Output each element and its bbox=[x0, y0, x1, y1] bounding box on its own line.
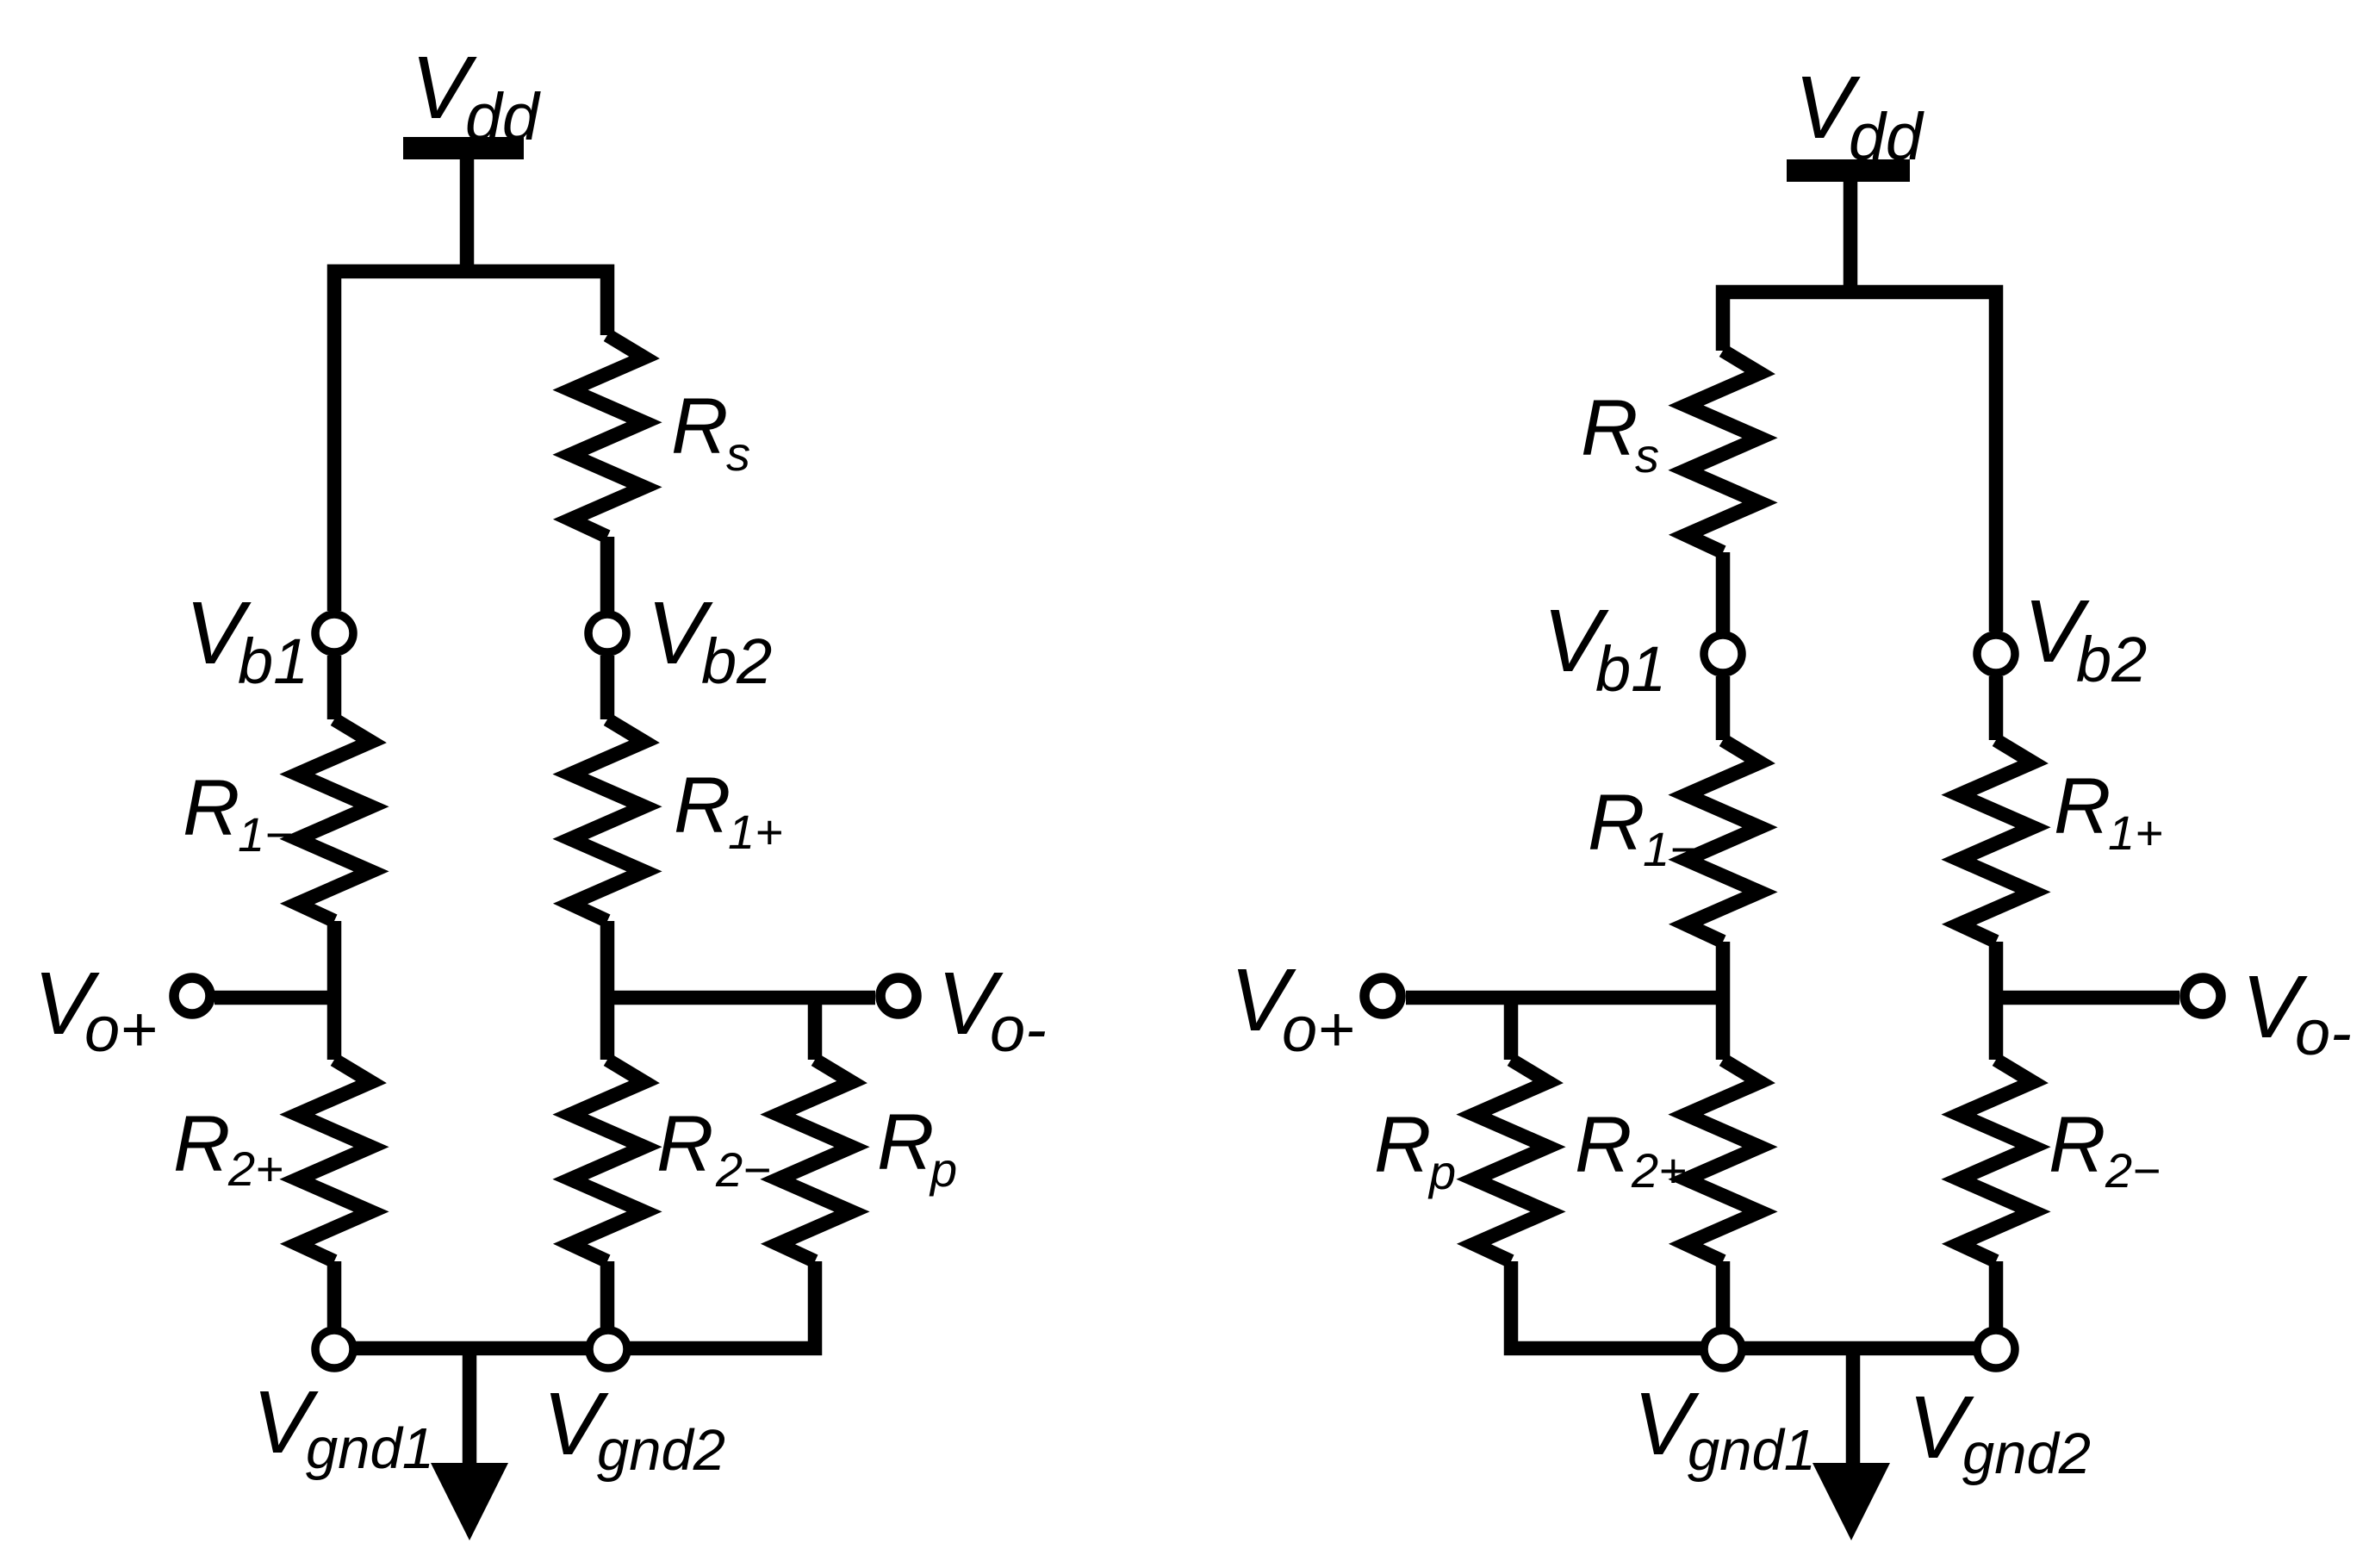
svg-text:R: R bbox=[674, 762, 731, 849]
wire top rail right circuit bbox=[1723, 292, 1996, 632]
svg-text:gnd2: gnd2 bbox=[597, 1418, 725, 1483]
wire Vo- left circuit bbox=[607, 991, 875, 1005]
svg-text:s: s bbox=[726, 426, 750, 481]
wire Rp to bottom rail right circuit bbox=[1511, 1261, 1996, 1348]
wire mid rail R2- to Vgnd2 bbox=[600, 1261, 615, 1348]
wire Vo- right circuit bbox=[1996, 991, 2179, 1005]
node Vb1 left bbox=[315, 614, 353, 652]
node Vgnd1 left bbox=[315, 1330, 353, 1368]
svg-text:o+: o+ bbox=[1282, 993, 1354, 1065]
svg-text:R: R bbox=[2049, 1101, 2105, 1189]
node Vgnd2 left bbox=[589, 1330, 627, 1368]
power symbol Vdd left bbox=[403, 137, 524, 159]
svg-text:1−: 1− bbox=[238, 807, 293, 862]
wire left rail R1- to R2+ bbox=[327, 921, 342, 1060]
resistor R1+ right circuit bbox=[1959, 740, 2033, 942]
node Vb2 right bbox=[1977, 635, 2015, 673]
terminal Vo+ left bbox=[174, 978, 210, 1014]
wire left rail Vb1 to R1- right circuit bbox=[1716, 676, 1731, 740]
wire Rp to bottom rail left circuit bbox=[334, 1261, 815, 1348]
resistor R1- left circuit bbox=[297, 719, 371, 921]
wire left rail R1- to R2+ right circuit bbox=[1716, 942, 1731, 1060]
svg-text:b1: b1 bbox=[1595, 633, 1666, 705]
svg-text:R: R bbox=[656, 1100, 713, 1188]
svg-text:dd: dd bbox=[1849, 100, 1924, 174]
wire left rail R2+ to Vgnd1 right circuit bbox=[1716, 1261, 1731, 1348]
svg-text:o+: o+ bbox=[84, 993, 157, 1065]
wire right rail Vb2 to R1+ right circuit bbox=[1989, 676, 2004, 740]
resistor R1+ left circuit bbox=[570, 719, 644, 921]
svg-text:2+: 2+ bbox=[1631, 1143, 1687, 1198]
svg-text:2+: 2+ bbox=[227, 1142, 283, 1196]
wire right rail R1+ to R2- right circuit bbox=[1989, 942, 2004, 1060]
svg-text:R: R bbox=[1588, 779, 1645, 867]
svg-text:b2: b2 bbox=[2076, 624, 2147, 695]
wire mid rail R1+ to R2- bbox=[600, 921, 615, 1060]
resistor R2- left circuit bbox=[570, 1060, 644, 1261]
wire left rail R2+ to Vgnd1 bbox=[327, 1261, 342, 1348]
svg-text:gnd1: gnd1 bbox=[306, 1416, 434, 1481]
resistor Rp left circuit bbox=[778, 1060, 852, 1261]
wire Vo+ right circuit bbox=[1406, 991, 1723, 1005]
svg-text:p: p bbox=[1427, 1145, 1456, 1199]
resistor R2+ right circuit bbox=[1686, 1060, 1760, 1261]
node Vgnd2 right bbox=[1977, 1330, 2015, 1368]
resistor Rs right circuit bbox=[1686, 351, 1760, 552]
svg-text:R: R bbox=[2054, 762, 2111, 850]
wire mid rail Vb2 to R1+ bbox=[600, 537, 615, 719]
svg-text:R: R bbox=[183, 764, 239, 852]
svg-text:gnd1: gnd1 bbox=[1688, 1418, 1816, 1483]
svg-text:R: R bbox=[671, 383, 728, 470]
wire Vo+ left circuit bbox=[215, 991, 334, 1005]
terminal Vo- right bbox=[2185, 978, 2221, 1014]
svg-text:s: s bbox=[1635, 428, 1659, 482]
svg-text:R: R bbox=[877, 1098, 934, 1186]
wire left rail Rs to Vb1 right circuit bbox=[1716, 552, 1731, 632]
resistor R1- right circuit bbox=[1686, 740, 1760, 942]
ground symbol left circuit bbox=[463, 1348, 477, 1466]
svg-text:o-: o- bbox=[990, 993, 1047, 1065]
svg-text:p: p bbox=[929, 1142, 957, 1197]
resistor R2- right circuit bbox=[1959, 1060, 2033, 1261]
wire right rail R2- to Vgnd2 right circuit bbox=[1989, 1261, 2004, 1348]
wire top rail left circuit bbox=[334, 271, 607, 611]
terminal Vo- left bbox=[880, 978, 917, 1014]
svg-text:1+: 1+ bbox=[728, 805, 783, 859]
svg-text:1−: 1− bbox=[1643, 822, 1698, 876]
resistor Rs left bbox=[570, 335, 644, 537]
wire Rp drop left circuit bbox=[808, 998, 823, 1060]
resistor Rp right circuit bbox=[1474, 1060, 1548, 1261]
svg-text:2−: 2− bbox=[2105, 1143, 2161, 1198]
svg-text:1+: 1+ bbox=[2108, 806, 2163, 860]
ground symbol right circuit bbox=[1846, 1348, 1861, 1466]
svg-text:R: R bbox=[1575, 1101, 1632, 1189]
svg-text:o-: o- bbox=[2295, 997, 2352, 1068]
wire left rail Vb1 to R1- bbox=[327, 656, 342, 719]
node Vb2 left bbox=[588, 614, 626, 652]
node Vgnd1 right bbox=[1704, 1330, 1742, 1368]
svg-text:R: R bbox=[1581, 384, 1638, 472]
power symbol Vdd right bbox=[1787, 159, 1910, 182]
svg-text:b2: b2 bbox=[701, 625, 772, 697]
svg-text:R: R bbox=[173, 1100, 230, 1188]
resistor R2+ left circuit bbox=[297, 1060, 371, 1261]
wire Rp drop right circuit bbox=[1504, 998, 1519, 1060]
svg-text:gnd2: gnd2 bbox=[1962, 1422, 2091, 1486]
svg-text:dd: dd bbox=[465, 80, 541, 154]
svg-text:2−: 2− bbox=[715, 1142, 771, 1197]
terminal Vo+ right bbox=[1365, 978, 1401, 1014]
svg-text:R: R bbox=[1374, 1101, 1431, 1189]
node Vb1 right bbox=[1704, 635, 1742, 673]
svg-text:b1: b1 bbox=[238, 625, 308, 697]
